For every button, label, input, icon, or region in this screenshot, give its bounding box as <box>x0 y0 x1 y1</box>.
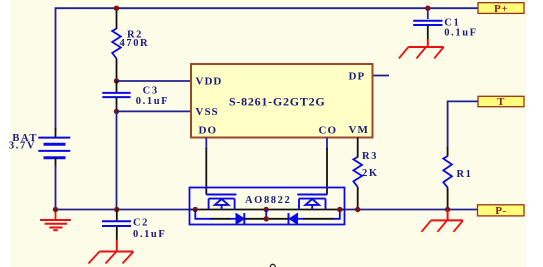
resistor R2 <box>112 29 121 59</box>
svg-text:2K: 2K <box>362 168 379 179</box>
node battery/ground junction <box>53 207 58 212</box>
node P- junction <box>445 207 450 212</box>
terminal P- <box>478 205 525 217</box>
diode D2 body diode <box>289 213 298 224</box>
wire DP stub <box>374 75 390 77</box>
battery BAT bottom pin <box>55 158 57 167</box>
capacitor C1 top pin <box>427 8 429 19</box>
capacitor C1 bottom pin <box>427 25 429 40</box>
capacitor C1 <box>413 21 442 25</box>
transistor Q1 left MOSFET <box>206 195 236 210</box>
wire left diode riser <box>195 210 212 219</box>
op-amp U1 S-8261 IC body <box>191 64 373 138</box>
node R2 top junction <box>114 6 119 11</box>
svg-text:CO: CO <box>319 125 338 137</box>
battery BAT top pin <box>55 128 57 138</box>
stray mark bottom <box>270 264 275 267</box>
wire right diode riser <box>334 210 340 219</box>
node right riser junction <box>337 207 342 212</box>
node C2 junction <box>114 207 119 212</box>
transistor Q1/Q2 AO8822 package box <box>190 188 345 225</box>
resistor R1 <box>443 156 452 188</box>
capacitor C2 bottom pin <box>116 226 118 240</box>
svg-text:0.1uF: 0.1uF <box>133 229 166 240</box>
wire bottom rail middle <box>190 209 345 211</box>
transistor Q2 right MOSFET <box>297 195 327 210</box>
svg-text:T: T <box>497 96 505 108</box>
svg-text:R3: R3 <box>362 151 378 162</box>
wire left diode segment <box>211 218 231 220</box>
ground chassis below C1 <box>399 39 444 59</box>
svg-text:VSS: VSS <box>196 106 219 118</box>
capacitor C3 top pin <box>116 81 118 93</box>
wire bottom rail right <box>345 209 479 211</box>
svg-text:C2: C2 <box>133 218 149 229</box>
battery BAT <box>38 138 70 158</box>
wire battery to rail <box>55 165 57 210</box>
ground chassis below C2 <box>89 240 134 264</box>
svg-text:DO: DO <box>199 125 218 137</box>
node box-left source junction <box>193 207 198 212</box>
svg-text:470R: 470R <box>120 38 150 49</box>
wire DO down <box>205 138 207 195</box>
diode D1 body diode <box>236 213 244 224</box>
wire T to R1 <box>448 101 478 149</box>
svg-text:VDD: VDD <box>196 76 223 88</box>
wire VM down <box>357 138 359 158</box>
node mid diode junction <box>264 216 269 221</box>
wire left vertical <box>55 7 57 130</box>
svg-text:0.1uF: 0.1uF <box>444 28 477 39</box>
svg-text:S-8261-G2GT2G: S-8261-G2GT2G <box>229 95 325 109</box>
svg-text:0.1uF: 0.1uF <box>136 96 169 107</box>
terminal T <box>478 96 524 108</box>
svg-text:R1: R1 <box>457 169 473 180</box>
wire VDD to IC <box>117 80 192 82</box>
wire right diode blue stub <box>298 218 305 220</box>
capacitor C2 top pin <box>116 210 118 222</box>
svg-text:C3: C3 <box>143 86 159 97</box>
wire diode line middle <box>244 218 288 220</box>
resistor R2 top pin <box>116 8 118 29</box>
svg-text:VM: VM <box>349 124 369 136</box>
wire VSS to IC <box>117 110 192 112</box>
capacitor C3 <box>102 93 130 97</box>
svg-text:AO8822: AO8822 <box>245 195 291 206</box>
terminal P+ <box>478 3 524 15</box>
wire mid vertical connector <box>265 210 267 219</box>
svg-text:P+: P+ <box>494 3 508 15</box>
wire left diode blue stub <box>231 218 237 220</box>
svg-text:DP: DP <box>349 71 366 83</box>
wire bottom rail left <box>56 209 191 211</box>
wire top horizontal <box>56 7 479 9</box>
capacitor C3 bottom pin <box>116 97 118 111</box>
resistor R1 bottom pin <box>447 187 449 209</box>
node VDD junction <box>114 78 119 83</box>
node R3 rail junction <box>355 207 360 212</box>
node mid rail junction <box>264 207 269 212</box>
resistor R3 bottom pin <box>357 187 359 210</box>
ground GND earth below battery <box>40 210 71 231</box>
wire right diode segment <box>303 218 334 220</box>
node VSS junction <box>114 109 119 114</box>
wire VSS down to rail <box>116 111 118 209</box>
resistor R3 <box>353 157 362 187</box>
resistor R2 bottom pin <box>116 59 118 82</box>
wire CO down <box>326 138 328 195</box>
svg-text:3.7V: 3.7V <box>9 141 36 152</box>
capacitor C2 <box>102 221 131 226</box>
resistor R1 top pin <box>447 147 449 156</box>
svg-text:P-: P- <box>495 205 506 217</box>
ground chassis below P- <box>422 210 464 232</box>
node C1 top junction <box>425 6 430 11</box>
